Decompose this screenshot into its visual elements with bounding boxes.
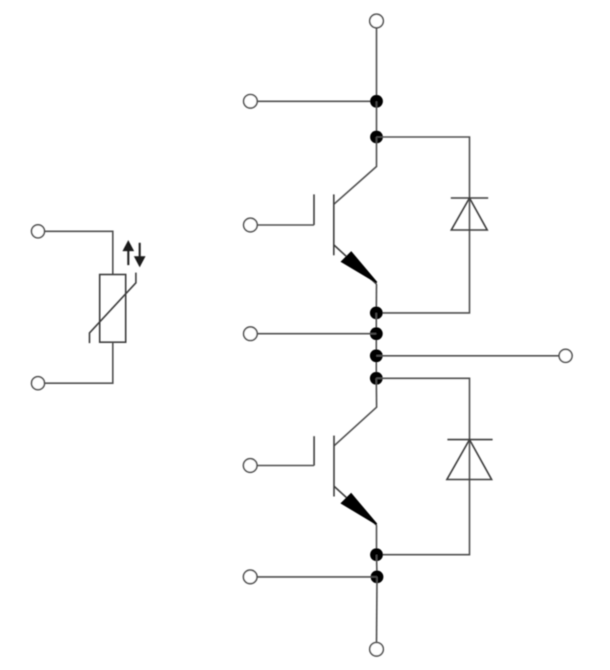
diode D2 triangle [447, 440, 492, 480]
thermistor diagonal stroke [90, 273, 136, 344]
AC output terminal [559, 349, 572, 362]
wire thermistor to bottom terminal [45, 342, 113, 383]
current arrow down [135, 243, 144, 266]
wire mid stack [375, 313, 377, 378]
node: AC output [370, 349, 383, 362]
wire to mid-left auxiliary terminal [257, 333, 376, 335]
IGBT Q2 body bar [333, 436, 335, 497]
wire gate 1 [257, 224, 314, 226]
node: D1 return [370, 307, 383, 320]
wire to AC output terminal [376, 355, 559, 357]
wire diode D2 branch [376, 378, 469, 554]
thermistor bottom-left terminal [32, 377, 45, 390]
IGBT Q1 body bar [333, 194, 335, 255]
wire emitter 2 down to node [376, 525, 378, 555]
node: emitter 2 aux [371, 571, 384, 584]
gate 1 terminal [244, 218, 258, 232]
wire node to IGBT Q1 collector [334, 137, 377, 204]
diode D2 cathode bar [447, 439, 492, 441]
IGBT Q1 gate bar [313, 194, 315, 225]
node: emitter aux [370, 327, 383, 340]
thermistor top-left terminal [32, 225, 45, 238]
node: D2 return [370, 548, 383, 561]
wire node to upper-left auxiliary terminal [257, 100, 376, 102]
top terminal (collector 1) [370, 14, 384, 28]
wire down to bottom terminal [376, 577, 379, 643]
wire gate 2 [257, 465, 314, 467]
wire to bottom-left auxiliary terminal [257, 576, 377, 578]
current arrow up [124, 242, 133, 265]
mid-left auxiliary terminal [244, 327, 258, 341]
bottom-left auxiliary terminal [243, 570, 257, 584]
wire between upper nodes [376, 101, 378, 137]
wire node to IGBT Q2 collector [334, 378, 376, 445]
thermistor R1 body [100, 275, 126, 343]
gate 2 terminal [243, 459, 257, 473]
diode D1 cathode bar [451, 197, 488, 199]
IGBT Q2 emitter lead [334, 486, 376, 525]
bottom terminal (emitter 2) [370, 643, 384, 657]
node: diode D2 tap [370, 372, 383, 385]
node: diode D1 tap [370, 131, 383, 144]
wire top terminal down to node [376, 28, 378, 102]
wire between bottom nodes [376, 555, 379, 577]
upper-left auxiliary terminal [244, 95, 258, 109]
node: collector junction [370, 95, 383, 108]
IGBT Q1 emitter lead [334, 245, 377, 284]
IGBT Q2 emitter arrow [342, 494, 377, 524]
IGBT Q2 gate bar [313, 436, 315, 465]
wire diode D1 branch [376, 137, 469, 313]
wire emitter 1 down to node [375, 284, 377, 313]
IGBT Q1 emitter arrow [342, 252, 377, 282]
diode D1 triangle [451, 198, 487, 230]
wire top terminal to thermistor [45, 231, 113, 274]
